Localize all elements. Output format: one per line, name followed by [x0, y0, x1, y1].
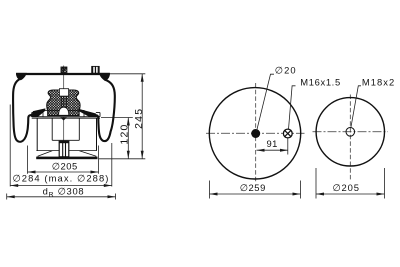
svg-text:M18x2: M18x2 — [362, 76, 395, 87]
svg-text:M16x1.5: M16x1.5 — [300, 76, 341, 87]
svg-text:∅20: ∅20 — [275, 65, 297, 76]
svg-text:∅205: ∅205 — [332, 182, 359, 193]
svg-text:91: 91 — [266, 138, 277, 149]
svg-text:∅259: ∅259 — [240, 182, 266, 193]
svg-text:∅205: ∅205 — [52, 161, 78, 172]
svg-text:245: 245 — [133, 108, 145, 129]
svg-text:120: 120 — [118, 123, 130, 144]
svg-text:∅284 (max. ∅288): ∅284 (max. ∅288) — [13, 172, 110, 183]
